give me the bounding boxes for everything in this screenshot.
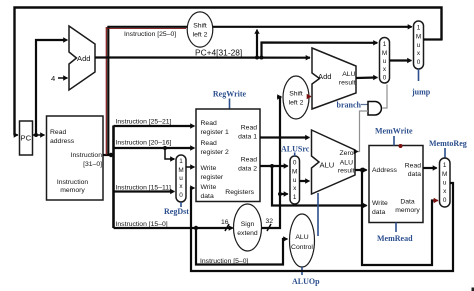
- shift left 2 (branch): [283, 76, 309, 119]
- wire PC+4[31-28] tap up: [256, 32, 258, 58]
- wire 4 into Add: [58, 77, 68, 79]
- svg-text:0: 0: [443, 197, 447, 204]
- svg-text:RegWrite: RegWrite: [213, 90, 247, 99]
- wire ALU control to ALU (blue): [317, 193, 319, 236]
- wire RegDst select: [180, 202, 182, 207]
- gate AND branch: [368, 102, 381, 116]
- wire sign extend out up to shift left 2: [262, 97, 282, 228]
- svg-text:left 2: left 2: [289, 100, 304, 107]
- mux ALUSrc: [290, 156, 300, 204]
- artifact corner mark: [472, 288, 474, 291]
- mux jump: [414, 21, 424, 69]
- svg-text:u: u: [293, 177, 297, 184]
- svg-text:Instruction [20–16]: Instruction [20–16]: [116, 140, 172, 147]
- svg-text:extend: extend: [237, 230, 258, 237]
- adder branch Add: [312, 48, 356, 109]
- svg-text:left 2: left 2: [193, 32, 208, 39]
- junction red shift input: [187, 25, 191, 29]
- svg-text:[31–0]: [31–0]: [83, 161, 102, 168]
- svg-text:Read: Read: [50, 129, 66, 136]
- shift left 2 (jump): [187, 12, 213, 47]
- slash 32: [267, 224, 271, 231]
- svg-text:ALU: ALU: [342, 71, 355, 78]
- svg-text:data 1: data 1: [238, 134, 257, 141]
- svg-text:32: 32: [266, 218, 274, 225]
- wire Read data to MemtoReg mux input 1: [423, 167, 436, 169]
- wire into PC: [14, 134, 19, 136]
- mux MemtoReg: [440, 158, 451, 207]
- wire jump address to jump mux: [213, 26, 411, 28]
- wire RegDst mux out to Write register: [186, 166, 195, 168]
- svg-text:Instruction [5–0]: Instruction [5–0]: [200, 258, 248, 265]
- svg-text:Address: Address: [372, 167, 398, 174]
- svg-text:data 2: data 2: [238, 166, 257, 173]
- svg-text:Read: Read: [241, 125, 257, 132]
- wire ALU result down to MemtoReg mux input 0: [362, 170, 436, 265]
- svg-text:Control: Control: [291, 244, 313, 251]
- wire jump mux out: [424, 38, 443, 40]
- svg-text:PC: PC: [21, 134, 32, 143]
- svg-text:0: 0: [179, 192, 183, 199]
- svg-text:Write: Write: [201, 184, 217, 191]
- registers: [196, 109, 260, 202]
- svg-text:Write: Write: [372, 200, 388, 207]
- svg-text:M: M: [178, 167, 183, 174]
- wire Read data 2 down to memory Write data: [272, 166, 366, 206]
- svg-text:u: u: [383, 58, 387, 65]
- wire jog to branch mux input 1: [262, 43, 378, 58]
- svg-text:MemtoReg: MemtoReg: [429, 139, 467, 148]
- wire to ALUSrc mux input 1: [280, 193, 287, 195]
- svg-text:ALU: ALU: [340, 160, 353, 167]
- wire to RegDst mux input 1: [165, 148, 174, 159]
- svg-text:data: data: [201, 193, 214, 200]
- wire MemWrite select: [393, 136, 395, 146]
- svg-text:Sign: Sign: [241, 221, 255, 228]
- svg-text:ALU: ALU: [320, 161, 335, 170]
- svg-text:result: result: [338, 168, 355, 175]
- junction PC+4 taps: [255, 56, 259, 60]
- svg-text:RegDst: RegDst: [164, 207, 189, 216]
- wire PC to instruction memory: [33, 134, 45, 136]
- wire branch to AND gate: [361, 104, 368, 106]
- svg-text:ALUOp: ALUOp: [292, 277, 320, 286]
- wire MemtoReg mux out feedback to Write data: [191, 183, 453, 271]
- svg-text:MemWrite: MemWrite: [375, 127, 413, 136]
- mux RegDst: [176, 155, 186, 202]
- svg-text:Read: Read: [241, 157, 257, 164]
- sign extend: [234, 204, 262, 251]
- wire Zero to AND gate: [355, 111, 368, 152]
- junction Read data 2: [270, 164, 274, 168]
- wire instruction output stub: [103, 154, 114, 156]
- svg-text:jump: jump: [411, 88, 431, 97]
- wire Instruction[15-11] to RegDst mux input 0: [114, 190, 174, 192]
- svg-text:data: data: [408, 171, 421, 178]
- PC register: [20, 121, 33, 155]
- svg-text:register 2: register 2: [201, 149, 230, 156]
- svg-text:1: 1: [443, 162, 447, 169]
- svg-text:u: u: [443, 180, 447, 187]
- junction PC out: [34, 133, 38, 137]
- junction to ALUSrc mux: [278, 192, 282, 196]
- wire Instruction[20-16]: [114, 147, 194, 149]
- svg-text:Instruction: Instruction: [57, 179, 89, 186]
- svg-text:data: data: [372, 209, 385, 216]
- wire jump tap vertical (red highlight): [105, 27, 107, 155]
- svg-text:Add: Add: [318, 72, 332, 81]
- svg-text:0: 0: [293, 160, 297, 167]
- wire ALUSrc mux out to ALU: [300, 180, 309, 182]
- svg-text:M: M: [292, 169, 297, 176]
- wire Instruction[25-0] to shift left 2: [107, 27, 186, 29]
- svg-text:memory: memory: [395, 207, 420, 214]
- svg-text:Shift: Shift: [289, 91, 303, 98]
- svg-text:Instruction [25–0]: Instruction [25–0]: [124, 31, 176, 38]
- junction Instruction[5-0] tap: [194, 226, 198, 230]
- svg-text:0: 0: [417, 59, 421, 66]
- svg-text:Registers: Registers: [225, 189, 254, 196]
- svg-text:Read: Read: [201, 140, 217, 147]
- svg-text:u: u: [417, 42, 421, 49]
- instruction bus vertical: [112, 126, 115, 229]
- svg-text:1: 1: [417, 25, 421, 32]
- svg-text:MemRead: MemRead: [377, 234, 413, 243]
- svg-text:1: 1: [383, 41, 387, 48]
- svg-text:u: u: [179, 175, 183, 182]
- svg-text:M: M: [382, 50, 387, 57]
- wire Read data 2 to ALUSrc mux input 0: [260, 165, 287, 167]
- svg-text:PC+4[31-28]: PC+4[31-28]: [195, 48, 242, 58]
- svg-text:1: 1: [179, 158, 183, 165]
- svg-text:4: 4: [51, 74, 55, 83]
- adder Add (PC+4): [69, 26, 95, 90]
- svg-text:result: result: [339, 80, 356, 87]
- wire branch adder out to branch mux input 0: [356, 76, 376, 79]
- svg-text:Instruction [15–0]: Instruction [15–0]: [116, 221, 168, 228]
- junction instruction bus: [109, 153, 113, 157]
- junction to RegDst mux: [163, 146, 167, 150]
- svg-text:register: register: [201, 174, 224, 181]
- wire shift out to branch adder: [309, 96, 311, 98]
- svg-text:register 1: register 1: [201, 129, 230, 136]
- junction ALU result: [360, 168, 364, 172]
- svg-text:Data: Data: [400, 199, 415, 206]
- wire Instruction[15-0] to sign extend: [114, 227, 233, 229]
- wire Instruction[5-0] to ALU control: [196, 228, 285, 265]
- junction red dot memory top: [399, 144, 403, 148]
- wire PC+4 from Add to branch adder: [95, 56, 310, 58]
- svg-text:Read: Read: [405, 163, 421, 170]
- svg-text:ALUSrc: ALUSrc: [281, 145, 310, 154]
- instruction memory: [47, 116, 104, 200]
- wire MemRead select: [395, 223, 397, 233]
- wire RegWrite select: [229, 99, 231, 110]
- wire PC up to Add: [36, 40, 66, 135]
- svg-text:Write: Write: [201, 165, 217, 172]
- wire jump select: [418, 69, 420, 81]
- wire ALUSrc select: [294, 153, 296, 157]
- svg-text:Instruction [15–11]: Instruction [15–11]: [116, 185, 172, 192]
- data memory: [369, 146, 423, 223]
- svg-text:branch: branch: [337, 101, 362, 110]
- svg-text:M: M: [442, 171, 447, 178]
- wire PC feedback top border: [15, 8, 442, 136]
- mux branch: [380, 38, 390, 84]
- svg-text:Zero: Zero: [340, 150, 354, 157]
- svg-text:Read: Read: [201, 120, 217, 127]
- svg-text:memory: memory: [60, 187, 85, 194]
- svg-text:address: address: [50, 138, 75, 145]
- wire ALU result to data memory Address: [355, 169, 366, 171]
- svg-text:M: M: [416, 34, 421, 41]
- wire Read data 1 to ALU: [260, 136, 308, 138]
- wire Instruction[25-21]: [114, 125, 194, 127]
- slash 16: [225, 224, 229, 231]
- wire ALUOp: [301, 267, 303, 275]
- svg-text:0: 0: [383, 75, 387, 82]
- wire MemtoReg select: [444, 148, 446, 158]
- svg-text:Add: Add: [77, 54, 91, 63]
- svg-text:Shift: Shift: [193, 23, 207, 30]
- ALU main: [312, 130, 356, 194]
- svg-text:Instruction [25–21]: Instruction [25–21]: [116, 119, 172, 126]
- svg-text:ALU: ALU: [295, 234, 308, 241]
- svg-text:Instruction: Instruction: [71, 152, 103, 159]
- wire branch mux out to jump mux input 0: [390, 59, 411, 61]
- wire AND out to branch mux select: [383, 85, 387, 109]
- svg-text:1: 1: [293, 194, 297, 201]
- ALU control: [290, 214, 315, 267]
